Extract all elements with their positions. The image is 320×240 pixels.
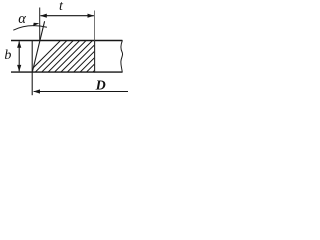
right edge of key — [94, 40, 96, 73]
left edge of key + extension line for D — [31, 40, 33, 95]
dimension D line — [34, 91, 128, 93]
slanted side of key (taper at angle alpha) — [32, 21, 44, 72]
svg-text:b: b — [4, 48, 11, 63]
D arrow left — [33, 89, 40, 93]
t arrow left — [40, 14, 47, 18]
shaft break line — [121, 40, 123, 72]
dimension b line — [18, 41, 20, 71]
svg-text:α: α — [18, 11, 26, 27]
t arrow right — [88, 14, 95, 18]
top edge of key / shaft top line — [11, 40, 122, 42]
angle arc for alpha — [13, 26, 47, 31]
b arrow top — [17, 41, 21, 48]
arc arrow at vertical line — [33, 23, 39, 27]
b arrow bottom — [17, 65, 21, 72]
hatching (section lines of key cross-section) — [22, 39, 132, 79]
svg-text:t: t — [59, 0, 64, 14]
svg-text:D: D — [95, 78, 106, 93]
extension line t left (vertical reference for angle) — [39, 8, 41, 41]
bottom edge of key / shaft bottom line — [11, 71, 122, 73]
dimension t line — [40, 15, 94, 17]
extension line t right — [94, 11, 96, 41]
